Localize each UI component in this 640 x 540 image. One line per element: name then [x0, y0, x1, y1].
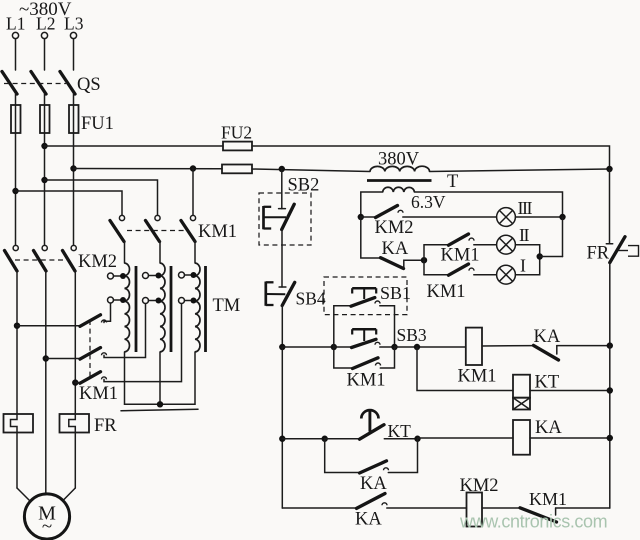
terminal L1 [12, 32, 18, 38]
TM core bar 1 [135, 266, 138, 352]
svg-text:KA: KA [535, 418, 562, 438]
node junction L1 branch [12, 188, 18, 194]
svg-text:KM2: KM2 [460, 476, 499, 496]
fuse FU1 phase L3 [69, 105, 79, 133]
node junction L3 bypass [72, 379, 78, 385]
node KA to KM1 lamp branch [421, 257, 427, 263]
wire KT branch [417, 347, 513, 391]
svg-text:FU1: FU1 [81, 114, 114, 134]
svg-text:KM1: KM1 [427, 282, 466, 302]
svg-text:FR: FR [587, 244, 610, 264]
contactor KM1 main pole 2 [146, 215, 161, 263]
wire motor lead right [63, 488, 75, 501]
contactor KM1 main pole 1 [110, 215, 125, 263]
node junction L2/FU2 row [41, 143, 47, 149]
wire control row 1 [45, 145, 224, 147]
pushbutton SB4 (NC) [266, 282, 295, 348]
node main row left junction [279, 344, 285, 350]
svg-text:SB2: SB2 [288, 176, 320, 196]
KM1 bypass linkage [89, 320, 91, 378]
autotransformer TM winding 1 [125, 263, 130, 352]
thermal relay FR heater 1 [4, 414, 34, 488]
wire L3 to KM1 pole3 [192, 169, 194, 219]
terminal L3 [70, 32, 76, 38]
wire KM1 coil to KA [482, 345, 533, 347]
motor M [24, 494, 69, 539]
node SB1 branch left [331, 344, 337, 350]
node lamp III junction [559, 214, 565, 220]
relay contact KA (NC) [534, 345, 610, 360]
svg-text:III: III [518, 198, 533, 218]
switch QS pole 1 [2, 72, 17, 106]
pushbutton SB2 (NC) [259, 193, 311, 287]
svg-text:TM: TM [213, 296, 241, 316]
lamp II [497, 235, 540, 256]
timer contact KT (delayed NO) [325, 410, 418, 439]
contactor KM1 bypass pole 2 [46, 304, 146, 359]
wire lamp join link [540, 256, 563, 258]
wire lamp branch vertical [423, 245, 425, 275]
svg-text:L2: L2 [36, 14, 55, 34]
wire KA coil row [418, 437, 514, 439]
KM1 linkage [127, 230, 184, 232]
node junction control rail [279, 166, 285, 172]
tap terminal w1 row1 [108, 273, 127, 279]
tap terminal w2 row1 [143, 273, 162, 279]
wire L2 bus [44, 133, 46, 246]
node star point [157, 401, 163, 407]
svg-text:I: I [520, 256, 526, 276]
contactor contact KM2 (lamp III) [361, 206, 497, 218]
wire control row 2 left [74, 168, 223, 170]
svg-text:SB1: SB1 [380, 283, 411, 303]
wire motor lead left [17, 488, 31, 502]
svg-text:~: ~ [42, 516, 52, 537]
svg-text:FU2: FU2 [221, 123, 252, 143]
wire main row left [282, 346, 334, 348]
contactor contact KM1 (lamp II) [424, 234, 497, 245]
transformer T secondary [383, 187, 415, 192]
contactor KM2 main pole 3 [63, 245, 77, 414]
switch QS pole 2 [31, 72, 46, 106]
svg-text:KM1: KM1 [458, 367, 497, 387]
svg-text:KM2: KM2 [375, 218, 414, 238]
contactor contact KM1 (lamp I) [424, 264, 497, 275]
node junction L2 branch [41, 177, 47, 183]
timer coil KT [513, 375, 530, 410]
relay contact FR (NC) [606, 237, 638, 346]
node junction L1 bypass [14, 323, 20, 329]
QS linkage [4, 83, 66, 85]
svg-text:KM1: KM1 [198, 222, 237, 242]
wire lamp rail to KA [361, 217, 380, 258]
svg-text:6.3V: 6.3V [411, 192, 446, 212]
wire L1 bus [15, 133, 17, 246]
contactor KM2 main pole 1 [5, 245, 19, 414]
autotransformer TM winding 2 [160, 263, 165, 352]
svg-text:KM2: KM2 [78, 252, 117, 272]
node right rail KT row [607, 387, 613, 393]
T core bar [367, 179, 432, 182]
node KA parallel branch left [322, 436, 328, 442]
lamp III [497, 208, 563, 227]
tap terminal w1 row2 [108, 297, 127, 303]
wire winding bottoms [124, 352, 126, 404]
wire control rail top [281, 169, 283, 209]
transformer T primary [370, 166, 430, 171]
svg-text:QS: QS [77, 75, 101, 95]
svg-text:L1: L1 [6, 14, 25, 34]
pushbutton SB1 (NO) branch [334, 288, 395, 347]
svg-text:KA: KA [360, 474, 387, 494]
tap terminal w3 row2 [179, 298, 197, 304]
wire w3 bottom [194, 352, 196, 404]
svg-text:II: II [519, 225, 529, 245]
svg-text:KM1: KM1 [79, 384, 118, 404]
node SB1 branch right [391, 344, 397, 350]
node lamp I/II junction [537, 253, 543, 259]
svg-text:KT: KT [535, 373, 560, 393]
SB1 dashed box [324, 277, 407, 315]
wire L3 bus [73, 133, 75, 246]
svg-text:KM1: KM1 [347, 371, 386, 391]
contactor KM1 main pole 3 [181, 215, 196, 263]
node right rail KA row [607, 435, 613, 441]
svg-text:380V: 380V [378, 150, 420, 170]
wire row 1 to right rail [252, 146, 610, 169]
wire L2 to KM1 pole2 [45, 180, 158, 218]
contactor KM1 bypass pole 1 [17, 303, 111, 326]
svg-text:T: T [447, 172, 458, 192]
node right rail top junction [606, 166, 612, 172]
wire right rail mid [609, 346, 611, 508]
relay contact KA (parallel NO) [325, 439, 418, 473]
wire L3 drop [73, 39, 75, 70]
node KT branch junction [414, 344, 420, 350]
wire KA coil to right rail [530, 437, 610, 439]
switch QS pole 3 [60, 72, 75, 106]
pushbutton SB3 (NO) [334, 329, 395, 347]
svg-text:L3: L3 [64, 14, 84, 34]
svg-text:KM1: KM1 [529, 489, 567, 509]
svg-text:SB4: SB4 [296, 289, 326, 309]
fuse FU1 phase L1 [11, 105, 21, 133]
fuse FU2 upper [223, 142, 252, 151]
wire lamp right rail [562, 217, 564, 257]
coil KM1 [466, 328, 482, 365]
thermal relay FR heater 2 [60, 414, 90, 488]
svg-text:SB3: SB3 [397, 325, 427, 345]
contactor KM2 main pole 2 [34, 245, 48, 493]
coil KM2 [467, 493, 483, 527]
fuse FU1 phase L2 [40, 105, 50, 133]
node lamp rail junction [358, 214, 364, 220]
wire secondary left [361, 192, 383, 217]
wire left rail mid [281, 347, 283, 508]
node junction L3 row 2 [70, 165, 76, 171]
autotransformer TM winding 3 [195, 263, 200, 352]
node right rail KM1 row [607, 342, 613, 348]
tap terminal w3 row1 [179, 272, 197, 278]
node junction L2 bypass [43, 355, 49, 361]
coil KA [513, 420, 530, 455]
wire w2 bottom [159, 352, 161, 404]
TM core bar 3 [204, 266, 207, 352]
contactor contact KM1 (interlock NC) [482, 508, 610, 522]
relay contact KA (bottom NO) [357, 494, 467, 509]
wire star underline [121, 409, 198, 411]
wire row 2 to transformer [252, 169, 370, 172]
svg-text:KA: KA [534, 327, 561, 347]
node left rail KA row [279, 436, 285, 442]
wire to KM1 coil [395, 346, 466, 348]
wire bottom row left [282, 507, 356, 509]
relay contact KA (lamp select) [381, 258, 425, 269]
lamp I [497, 257, 540, 285]
wire primary to right rail [430, 169, 610, 172]
contactor contact KM1 self-hold [334, 347, 395, 369]
TM core bar 2 [170, 266, 173, 352]
wire KA row left [282, 438, 324, 440]
wire right rail upper [609, 169, 611, 244]
terminal L2 [41, 32, 47, 38]
svg-text:KM1: KM1 [441, 246, 480, 266]
svg-text:FR: FR [94, 416, 117, 436]
node KA parallel branch right [414, 436, 420, 442]
wire KT to right rail [530, 390, 610, 392]
svg-text:KA: KA [355, 510, 382, 530]
svg-text:KT: KT [388, 421, 412, 441]
wire secondary right [414, 192, 562, 217]
wire L1 to KM1 pole1 [16, 191, 123, 218]
node junction L3 to KM1 pole3 [190, 165, 196, 171]
svg-text:www.cntronics.com: www.cntronics.com [459, 512, 607, 532]
wire L2 drop [44, 39, 46, 70]
svg-text:KA: KA [382, 239, 409, 259]
contactor KM1 bypass pole 3 [75, 304, 181, 384]
wire L1 drop [15, 39, 17, 70]
tap terminal w2 row2 [143, 298, 162, 304]
wire star connection [125, 403, 196, 405]
KM2 linkage [15, 259, 68, 261]
fuse FU2 lower [222, 165, 252, 174]
